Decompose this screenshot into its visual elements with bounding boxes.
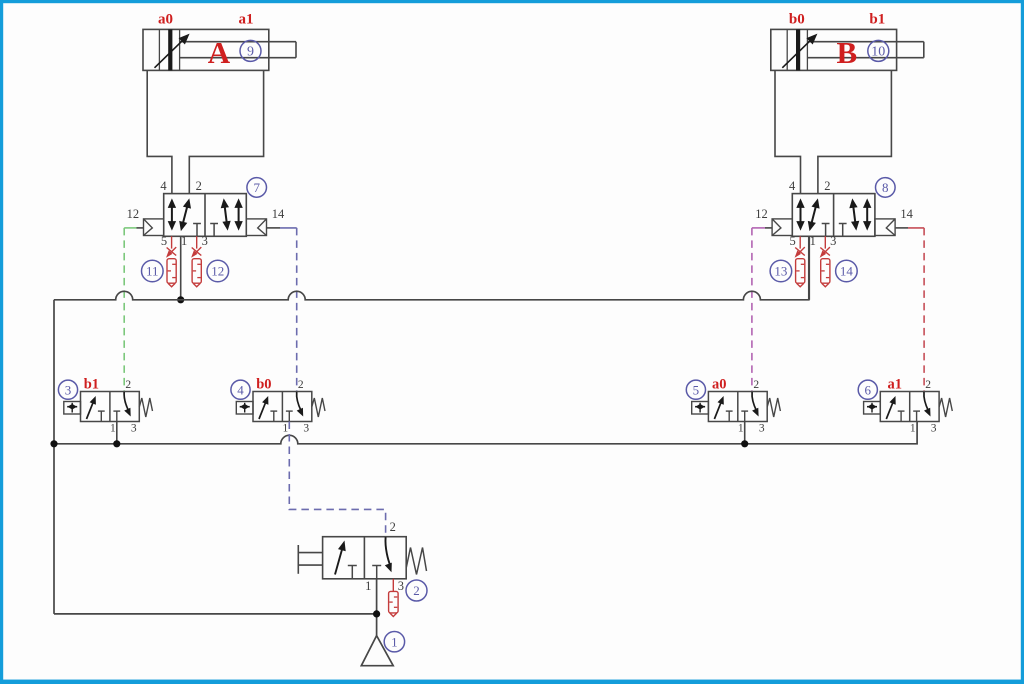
svg-text:4: 4 bbox=[789, 179, 796, 193]
silencer 14 exhaust port3 valve8 bbox=[824, 236, 826, 248]
svg-text:4: 4 bbox=[237, 382, 244, 397]
valve V5 (a0) left-cell arrow bbox=[714, 400, 722, 419]
id circle 2 bbox=[406, 580, 427, 601]
valve V3 (b1) left-cell T bbox=[98, 410, 105, 412]
svg-text:6: 6 bbox=[865, 382, 872, 397]
id circle 10 bbox=[868, 40, 889, 61]
valve V2 pushbutton actuator bbox=[297, 545, 299, 574]
cylinder A piston rod bbox=[180, 41, 296, 43]
valve U8 (5/2, cyl B) left-cell blocked port T bbox=[822, 223, 830, 225]
svg-text:5: 5 bbox=[693, 382, 700, 397]
id circle 4 bbox=[231, 380, 250, 399]
svg-text:2: 2 bbox=[925, 379, 931, 391]
junction riser bus2 bbox=[50, 440, 57, 447]
wire valve8 port1 to supply bus bbox=[808, 236, 810, 299]
supply bus 2 bbox=[54, 422, 917, 444]
svg-text:2: 2 bbox=[196, 179, 202, 193]
valve V3 (b1) right-cell flow 2-3 bbox=[124, 392, 129, 411]
svg-text:a1: a1 bbox=[239, 11, 254, 27]
wire valve2 port1 down to junction bbox=[376, 579, 378, 636]
svg-text:7: 7 bbox=[253, 180, 260, 195]
valve V5 (a0) left-cell T bbox=[726, 410, 733, 412]
id circle 7 bbox=[247, 178, 267, 198]
svg-text:9: 9 bbox=[247, 45, 254, 60]
junction valve3 on bus2 bbox=[113, 440, 120, 447]
wire cylinder A left port to valve7 port 4 bbox=[147, 70, 172, 193]
valve V6 (a1) left-cell arrow bbox=[886, 400, 894, 419]
id circle 12 bbox=[207, 260, 229, 282]
wire cylinder B left port to valve8 port 4 bbox=[775, 70, 801, 193]
svg-text:2: 2 bbox=[125, 379, 131, 391]
valve V2 spring bbox=[406, 548, 426, 575]
valve V3 (b1) body bbox=[81, 392, 140, 422]
id circle 14 bbox=[836, 260, 858, 282]
pilot line red valve6 to valve8 port14 bbox=[908, 227, 924, 229]
id circle 9 bbox=[240, 40, 261, 61]
valve U8 (5/2, cyl B) left-cell flow arrows bbox=[800, 204, 802, 225]
svg-text:3: 3 bbox=[303, 422, 309, 434]
id circle 8 bbox=[876, 178, 896, 198]
svg-text:2: 2 bbox=[753, 379, 759, 391]
svg-text:a0: a0 bbox=[158, 11, 173, 27]
bottom feed line bbox=[54, 613, 377, 615]
wire valve5 port1 to bus2 bbox=[744, 422, 746, 444]
svg-text:3: 3 bbox=[931, 422, 937, 434]
svg-text:5: 5 bbox=[789, 234, 795, 248]
valve V3 (b1) right-cell T port1 bbox=[113, 410, 120, 412]
svg-text:12: 12 bbox=[211, 264, 224, 279]
valve V2 right-cell T port1 bbox=[372, 565, 381, 567]
id circle 1 bbox=[384, 632, 404, 652]
wire valve7 port1 to supply bus bbox=[180, 236, 182, 299]
id circle 13 bbox=[770, 260, 792, 282]
valve V5 (a0) body bbox=[708, 392, 767, 422]
svg-text:B: B bbox=[836, 35, 857, 70]
silencer 12 exhaust port3 valve7 bbox=[196, 236, 198, 248]
svg-text:1: 1 bbox=[391, 634, 398, 649]
svg-text:1: 1 bbox=[810, 234, 816, 248]
pilot stub valve7 port12 bbox=[137, 227, 144, 229]
valve V3 (b1) spring bbox=[139, 398, 152, 417]
valve V4 (b0) body bbox=[253, 392, 312, 422]
supply bus 1 bbox=[54, 236, 809, 299]
svg-text:3: 3 bbox=[398, 579, 404, 593]
compressed air source 1 bbox=[361, 636, 393, 666]
valve V6 (a1) right-cell T port1 bbox=[913, 410, 920, 412]
valve V4 (b0) left-cell T bbox=[270, 410, 277, 412]
svg-text:a1: a1 bbox=[888, 377, 903, 393]
valve U7 (5/2, cyl A) right-cell flow arrows bbox=[224, 204, 227, 225]
svg-text:3: 3 bbox=[65, 382, 72, 397]
valve V2 (3/2 start) body bbox=[323, 537, 407, 579]
svg-text:1: 1 bbox=[110, 422, 116, 434]
valve V5 (a0) right-cell T port1 bbox=[741, 410, 748, 412]
svg-text:2: 2 bbox=[824, 179, 830, 193]
id circle 3 bbox=[58, 380, 77, 399]
valve V4 (b0) spring bbox=[312, 398, 325, 417]
valve U8 (5/2, cyl B) right pilot 14 bbox=[875, 219, 895, 236]
valve V4 (b0) right-cell flow 2-3 bbox=[297, 392, 302, 411]
valve V2 left-cell arrow bbox=[335, 545, 343, 574]
valve U7 (5/2, cyl A) left pilot 12 bbox=[144, 219, 164, 236]
valve U8 (5/2, cyl B) right-cell blocked port T bbox=[839, 223, 847, 225]
valve U7 (5/2, cyl A) left-cell blocked port T bbox=[193, 223, 201, 225]
valve U8 (5/2, cyl B) body bbox=[792, 194, 875, 237]
svg-text:13: 13 bbox=[774, 264, 787, 279]
valve V6 (a1) actuator bbox=[864, 402, 881, 415]
valve V2 right-cell flow 2-3 bbox=[385, 537, 390, 565]
svg-text:3: 3 bbox=[759, 422, 765, 434]
valve V5 (a0) right-cell flow 2-3 bbox=[752, 392, 757, 411]
valve U7 (5/2, cyl A) right pilot 14 bbox=[246, 219, 266, 236]
junction valve5 on bus2 bbox=[741, 440, 748, 447]
svg-text:11: 11 bbox=[146, 264, 159, 279]
svg-text:b0: b0 bbox=[789, 11, 805, 27]
svg-text:1: 1 bbox=[283, 422, 289, 434]
pilot line magenta valve5 to valve8 port12 bbox=[752, 227, 765, 229]
cylinder B body bbox=[771, 29, 897, 70]
id circle 5 bbox=[686, 380, 705, 399]
pilot stub valve8 port14 bbox=[896, 227, 908, 229]
silencer 11 exhaust port5 valve7 bbox=[171, 236, 173, 248]
valve V4 (b0) right-cell T port1 bbox=[286, 410, 293, 412]
svg-text:3: 3 bbox=[830, 234, 836, 248]
valve U8 (5/2, cyl B) right-cell flow arrows bbox=[853, 204, 856, 225]
valve V5 (a0) actuator bbox=[692, 402, 709, 415]
svg-text:5: 5 bbox=[161, 234, 167, 248]
id circle 6 bbox=[858, 380, 877, 399]
valve V4 (b0) left-cell arrow bbox=[259, 400, 267, 419]
valve V6 (a1) left-cell T bbox=[898, 410, 905, 412]
svg-text:12: 12 bbox=[127, 207, 140, 221]
svg-text:2: 2 bbox=[298, 379, 304, 391]
cylinder B stroke arrow bbox=[782, 37, 813, 67]
svg-text:1: 1 bbox=[365, 579, 371, 593]
junction feed bbox=[373, 610, 380, 617]
silencer 13 exhaust port5 valve8 bbox=[799, 236, 801, 248]
svg-text:12: 12 bbox=[755, 207, 768, 221]
valve V3 (b1) actuator bbox=[64, 402, 81, 415]
pilot stub valve8 port12 bbox=[765, 227, 772, 229]
wire cylinder B right port to valve8 port 2 bbox=[818, 70, 892, 193]
cylinder B piston bbox=[786, 29, 788, 70]
svg-text:14: 14 bbox=[900, 207, 913, 221]
valve U7 (5/2, cyl A) body bbox=[164, 194, 247, 237]
valve V2 left-cell T bbox=[348, 565, 357, 567]
valve V6 (a1) right-cell flow 2-3 bbox=[924, 392, 929, 411]
junction valve7 port1 on bus bbox=[177, 296, 184, 303]
left supply riser bbox=[53, 300, 55, 614]
valve U7 (5/2, cyl A) right-cell blocked port T bbox=[210, 223, 218, 225]
pilot line green valve3 to valve7 port12 bbox=[124, 227, 136, 229]
valve V6 (a1) spring bbox=[939, 398, 952, 417]
pilot stub valve7 port14 bbox=[267, 227, 281, 229]
pilot line blue valve4 to valve7 port14 bbox=[280, 227, 297, 229]
wire cylinder A right port to valve7 port 2 bbox=[189, 70, 263, 193]
valve U7 (5/2, cyl A) left-cell flow arrows bbox=[171, 204, 173, 225]
svg-text:8: 8 bbox=[882, 180, 889, 195]
svg-text:b1: b1 bbox=[869, 11, 885, 27]
valve V6 (a1) body bbox=[880, 392, 939, 422]
silencer valve2 port3 bbox=[392, 579, 394, 591]
valve V4 (b0) actuator bbox=[236, 402, 253, 415]
svg-text:A: A bbox=[208, 35, 231, 70]
cylinder A body bbox=[143, 29, 269, 70]
wire valve3 port1 to bus2 bbox=[116, 422, 118, 444]
svg-text:a0: a0 bbox=[712, 377, 727, 393]
svg-text:14: 14 bbox=[840, 264, 854, 279]
svg-text:1: 1 bbox=[181, 234, 187, 248]
cylinder B piston rod bbox=[807, 41, 923, 43]
svg-text:3: 3 bbox=[131, 422, 137, 434]
valve V3 (b1) left-cell arrow bbox=[87, 400, 95, 419]
svg-text:1: 1 bbox=[910, 422, 916, 434]
svg-text:4: 4 bbox=[160, 179, 167, 193]
cylinder A stroke arrow bbox=[155, 37, 186, 67]
svg-text:14: 14 bbox=[272, 207, 285, 221]
cylinder A piston bbox=[158, 29, 160, 70]
svg-text:b0: b0 bbox=[256, 377, 271, 393]
valve V5 (a0) spring bbox=[767, 398, 780, 417]
svg-text:3: 3 bbox=[202, 234, 208, 248]
svg-text:2: 2 bbox=[390, 520, 396, 534]
svg-text:b1: b1 bbox=[84, 377, 99, 393]
svg-text:1: 1 bbox=[738, 422, 744, 434]
svg-text:2: 2 bbox=[413, 583, 420, 598]
svg-text:10: 10 bbox=[871, 45, 885, 60]
id circle 11 bbox=[142, 260, 164, 282]
valve U8 (5/2, cyl B) left pilot 12 bbox=[772, 219, 792, 236]
pilot line blue valve2 out to valve4 port1 bbox=[289, 422, 385, 537]
